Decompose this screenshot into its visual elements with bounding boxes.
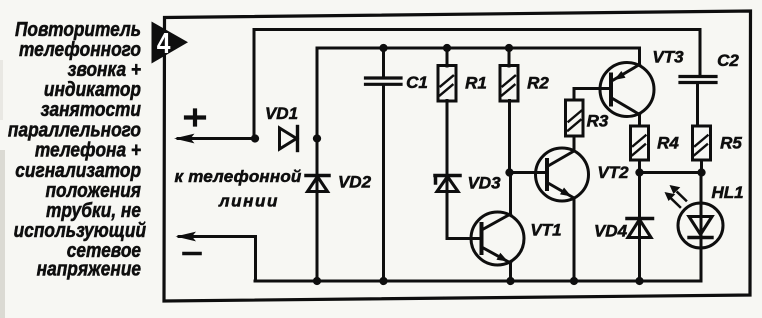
wire VT2 emitter lead	[573, 198, 576, 281]
svg-text:параллельного: параллельного	[8, 118, 141, 140]
LED HL1	[665, 183, 744, 248]
node R4 / VD4 junction	[635, 168, 643, 176]
svg-text:линии: линии	[218, 192, 279, 211]
wire R5 bottom to node	[700, 160, 703, 173]
resistor R1	[438, 66, 487, 102]
node R2 top junction	[505, 44, 513, 52]
zener diode VD3	[435, 174, 501, 193]
wire VT1 collector lead	[509, 173, 512, 215]
svg-text:напряжение: напряжение	[37, 257, 141, 279]
svg-text:R2: R2	[527, 74, 549, 93]
svg-text:телефона +: телефона +	[35, 138, 141, 160]
wire positive terminal lead	[174, 134, 255, 144]
wire C1 branch	[382, 48, 385, 281]
wire bottom rail	[255, 280, 701, 283]
svg-text:R5: R5	[720, 134, 742, 153]
wire VT1 emitter lead	[509, 263, 512, 282]
node VD1 cathode junction	[313, 134, 321, 142]
wire R4 bottom to node	[638, 160, 641, 173]
svg-text:VT1: VT1	[530, 221, 561, 240]
svg-text:VT3: VT3	[652, 48, 684, 67]
node к телефонной линии label	[174, 167, 301, 211]
wire VT2 collector to R3	[573, 137, 576, 152]
svg-text:занятости: занятости	[41, 98, 142, 120]
wire HL1 branch	[700, 173, 703, 282]
wire VD1 cathode rail feeding C1 R1 R2 and VT3 emitter	[317, 48, 640, 139]
svg-text:R1: R1	[465, 74, 487, 93]
wire VD4 branch	[638, 173, 641, 282]
node plus terminal	[186, 111, 204, 125]
node VT2 emitter junction	[570, 277, 578, 285]
node R1 top junction	[443, 44, 451, 52]
wire node R4 to R5	[640, 171, 702, 174]
diode VD1	[265, 104, 298, 151]
wire R2 bottom to node	[508, 101, 511, 173]
node VD1 anode junction	[251, 134, 259, 142]
svg-text:HL1: HL1	[711, 183, 743, 202]
node C1 top junction	[379, 44, 387, 52]
svg-text:R4: R4	[657, 134, 679, 153]
svg-text:VT2: VT2	[597, 163, 629, 182]
transistor VT1	[471, 212, 562, 265]
wire R3 top to VT3 base	[574, 89, 611, 101]
node VT1 collector / VT2 base junction	[505, 168, 513, 176]
svg-text:сигнализатор: сигнализатор	[15, 159, 141, 181]
node VD2 bottom junction	[313, 277, 321, 285]
transistor VT2	[536, 148, 630, 201]
svg-text:C2: C2	[717, 51, 739, 70]
diode VD2	[306, 173, 372, 192]
wire top rail from VD1 anode to C2	[254, 30, 700, 139]
svg-text:VD3: VD3	[467, 174, 501, 193]
node VD4 bottom junction	[635, 277, 643, 285]
svg-text:VD4: VD4	[594, 222, 628, 241]
capacitor C2	[680, 51, 739, 83]
node VT1 emitter junction	[506, 277, 514, 285]
wire R1 to VD3 to VT1 base	[447, 101, 481, 239]
wire negative terminal lead	[176, 232, 256, 281]
wire R1 top lead	[446, 48, 449, 66]
capacitor C1	[366, 73, 428, 92]
node R5 / HL1 junction	[697, 168, 705, 176]
wire node to VT2 base	[510, 171, 548, 174]
resistor R3	[566, 100, 609, 136]
svg-text:Повторитель: Повторитель	[15, 18, 141, 40]
resistor R5	[693, 126, 743, 160]
svg-text:VD1: VD1	[265, 104, 298, 123]
diode VD4	[594, 219, 653, 241]
resistor R2	[500, 66, 549, 102]
wire VD2 branch down to bottom rail	[316, 139, 319, 282]
node C1 bottom junction	[379, 277, 387, 285]
wire VT3 collector to R4	[638, 115, 641, 127]
wire C2 bottom to R5	[696, 84, 699, 127]
svg-text:C1: C1	[406, 73, 428, 92]
resistor R4	[631, 126, 680, 160]
caption text block	[8, 18, 147, 280]
transistor VT3 (PNP)	[600, 48, 684, 117]
svg-text:к телефонной: к телефонной	[174, 167, 301, 186]
wire R2 top lead	[508, 48, 511, 66]
svg-text:трубки, не: трубки, не	[46, 199, 141, 221]
svg-text:R3: R3	[587, 112, 609, 131]
node minus terminal	[184, 252, 200, 256]
svg-text:4: 4	[157, 27, 171, 59]
svg-text:VD2: VD2	[338, 173, 372, 192]
